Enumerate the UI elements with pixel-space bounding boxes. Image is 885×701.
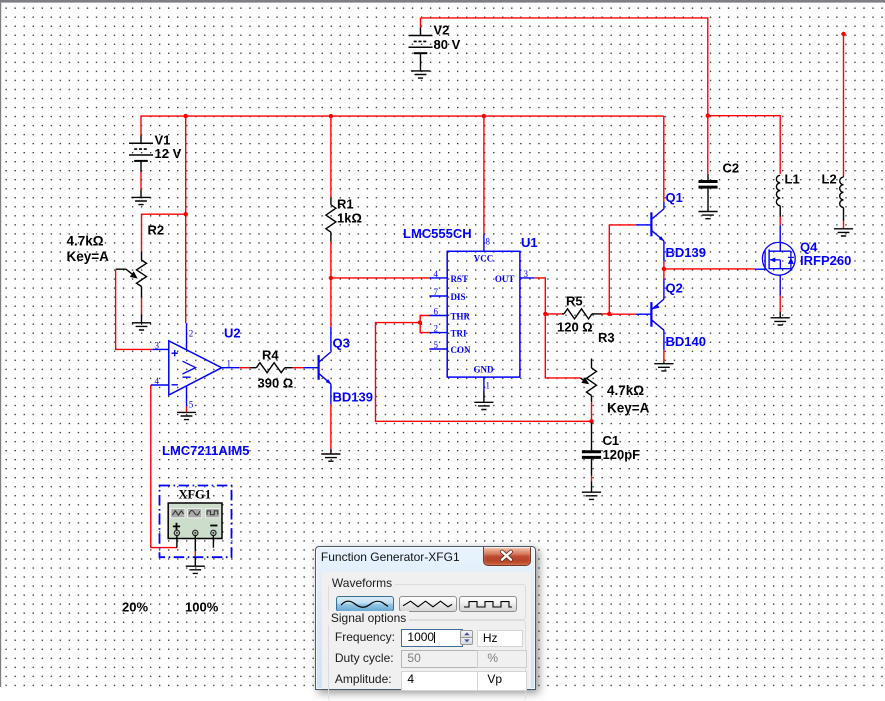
svg-text:1: 1 (227, 359, 232, 369)
svg-text:4.7kΩ: 4.7kΩ (67, 234, 104, 249)
dialog title (321, 550, 460, 564)
svg-text:100%: 100% (185, 600, 219, 615)
wire R2 wiper to U2 pin3 (116, 270, 153, 350)
wire R1 top (330, 116, 332, 198)
svg-text:L1: L1 (785, 172, 800, 187)
resistor R5 (562, 309, 602, 319)
group label Waveforms (329, 576, 395, 590)
input duty 50 (disabled) (401, 650, 480, 668)
wire R1 bottom to RST node (330, 242, 332, 278)
wire U2 output (239, 367, 250, 369)
svg-text:7: 7 (434, 287, 439, 297)
wire R2 bottom to ground (141, 298, 143, 315)
input frequency 1000 (401, 629, 462, 646)
wire C1 lower segment (591, 476, 593, 482)
svg-text:U1: U1 (521, 235, 538, 250)
wire bus to L1 (708, 116, 780, 174)
svg-text:Q3: Q3 (333, 336, 350, 351)
function generator XFG1 symbol (160, 486, 232, 567)
svg-text:BD139: BD139 (666, 245, 706, 260)
spinner up/down (460, 630, 474, 645)
wire U2 pin5 red segment (186, 407, 188, 413)
wire R5 right lead (602, 313, 610, 315)
svg-text:DIS: DIS (451, 292, 466, 302)
wire R4 to Q3 base (292, 367, 303, 369)
svg-text:120 Ω: 120 Ω (557, 320, 593, 335)
svg-text:12 V: 12 V (155, 146, 182, 161)
svg-text:V2: V2 (434, 23, 450, 38)
ground below L2 (834, 229, 853, 236)
inductor L1 (776, 175, 780, 217)
node bus/R1 (329, 114, 333, 118)
node THR-TRI feedback (418, 320, 422, 324)
wire Q2 base (609, 313, 636, 315)
ground below U2 pin5 (177, 412, 196, 419)
wire R3 wiper feed (545, 314, 580, 378)
battery V2 (409, 27, 433, 71)
svg-text:20%: 20% (122, 600, 148, 615)
svg-text:Q1: Q1 (666, 190, 683, 205)
potentiometer R3 (581, 359, 597, 403)
svg-text:4: 4 (434, 269, 439, 279)
svg-text:R2: R2 (148, 223, 165, 238)
svg-text:RST: RST (451, 274, 469, 284)
wire V1 negative to ground (140, 172, 142, 190)
close button (483, 547, 531, 566)
node bus/U2 pin2 (184, 114, 188, 118)
node bus/U1 VCC (482, 114, 486, 118)
label Duty cycle (335, 651, 394, 665)
wire Q3 collector riser (330, 278, 332, 327)
Function Generator dialog window (315, 546, 536, 690)
svg-text:LMC555CH: LMC555CH (403, 226, 472, 241)
svg-text:GND: GND (474, 364, 495, 374)
wire XFG1 common segment (194, 551, 196, 557)
inductor L2 (840, 177, 844, 229)
svg-text:390 Ω: 390 Ω (258, 376, 294, 391)
node L2 endpoint (841, 32, 845, 36)
wire R3 bottom (591, 402, 593, 421)
wire gate of Q4 (664, 268, 755, 270)
square wave button (459, 596, 517, 613)
resistor R4 (250, 363, 293, 373)
svg-text:80 V: 80 V (434, 37, 461, 52)
wire C2 top (707, 116, 709, 175)
svg-text:XFG1: XFG1 (179, 488, 212, 502)
svg-text:OUT: OUT (495, 274, 515, 284)
svg-text:5: 5 (434, 340, 439, 350)
svg-text:3: 3 (524, 269, 529, 279)
svg-text:R4: R4 (262, 348, 279, 363)
svg-text:4.7kΩ: 4.7kΩ (607, 383, 644, 398)
svg-text:C2: C2 (723, 161, 740, 176)
input amplitude 4 (401, 671, 480, 691)
wire L2 bottom (843, 221, 845, 229)
svg-text:C1: C1 (603, 433, 620, 448)
ground below XFG1 (186, 566, 205, 573)
resistor R1 (326, 198, 336, 242)
ground below Q4 (779, 312, 781, 318)
ground below R2 (141, 314, 143, 323)
svg-text:1: 1 (486, 381, 491, 391)
svg-text:Key=A: Key=A (67, 249, 110, 264)
wire OUT to R5 (534, 278, 545, 314)
svg-text:6: 6 (434, 307, 439, 317)
svg-text:THR: THR (451, 311, 471, 321)
potentiometer R2 (116, 252, 147, 298)
wire U2 pin2 supply drop (185, 116, 187, 323)
label Frequency (335, 630, 395, 644)
wire V1 12V bus (141, 116, 664, 135)
capacitor C2 (699, 174, 718, 211)
wire Q2 collector to ground (663, 350, 665, 362)
svg-text:BD140: BD140 (666, 334, 706, 349)
ground below U1 (474, 402, 493, 409)
transistor Q2 BD140 (636, 279, 664, 350)
svg-text:Key=A: Key=A (607, 401, 650, 416)
svg-text:2: 2 (189, 329, 194, 339)
group box Waveforms (328, 584, 526, 620)
svg-text:R3: R3 (598, 330, 615, 345)
MOSFET Q4 IRFP260 (755, 225, 796, 296)
wire RST to R1 node (331, 277, 430, 279)
wire U1 GND lead (483, 391, 485, 403)
battery V1 (129, 135, 153, 197)
wire branch to R2 top (142, 214, 186, 251)
wire Q1 collector to 12V bus (663, 116, 665, 202)
svg-text:IRFP260: IRFP260 (800, 253, 851, 268)
unit box Vp (477, 671, 527, 691)
wire L2 top (843, 34, 845, 177)
svg-text:CON: CON (451, 345, 472, 355)
wire Q1 base (609, 225, 636, 314)
svg-text:1kΩ: 1kΩ (337, 211, 362, 226)
triangle wave button (399, 596, 457, 613)
svg-text:2: 2 (434, 324, 439, 334)
node 80V bus corner C2 (706, 114, 710, 118)
node R2 branch (184, 212, 188, 216)
node R1/RST/Q3 (329, 276, 333, 280)
svg-text:R1: R1 (337, 197, 354, 212)
wire L1 bottom to Q4 drain (779, 217, 781, 225)
transistor Q1 BD139 (636, 202, 664, 261)
svg-text:Q2: Q2 (666, 281, 683, 296)
unit box Hz (477, 630, 523, 646)
wire U1 VCC supply (483, 116, 485, 234)
node R3/C1/feedback (589, 419, 593, 423)
IC U1 LMC555CH (429, 234, 534, 391)
svg-text:VCC: VCC (474, 254, 494, 264)
dialog client area (322, 571, 531, 689)
svg-text:120pF: 120pF (603, 447, 641, 462)
group box Signal options (328, 620, 526, 701)
ground below V2 (411, 71, 430, 78)
ground below C2 (698, 212, 717, 219)
sine wave button (selected) (336, 596, 394, 613)
wire U2 pin4 to XFG1 plus (151, 385, 177, 548)
unit box % (disabled) (477, 650, 527, 668)
ground below C1 (582, 492, 601, 499)
label Amplitude (335, 672, 392, 686)
wire V2 positive lead (420, 18, 422, 27)
svg-text:3: 3 (155, 340, 160, 350)
wire Q1/Q2 emitter junction (663, 261, 665, 278)
capacitor C1 (582, 421, 601, 492)
node R5/Q1/Q2 bases (607, 312, 611, 316)
ground below Q3 (330, 449, 332, 454)
wire THR-TRI link (420, 316, 429, 333)
node OUT/R5/R3 wiper (543, 312, 547, 316)
transistor Q3 BD139 (303, 327, 331, 404)
wire Q4 source to ground (779, 296, 781, 312)
node emitters/Q4 gate (662, 267, 666, 271)
svg-text:TRI: TRI (451, 328, 468, 338)
svg-text:5: 5 (189, 400, 194, 410)
group label Signal options (328, 611, 409, 625)
svg-text:LMC7211AIM5: LMC7211AIM5 (162, 443, 249, 458)
svg-text:L2: L2 (822, 172, 837, 187)
svg-text:BD139: BD139 (333, 390, 373, 405)
op-amp U2 LMC7211AIM5 (151, 323, 240, 406)
wire R5 left lead (545, 313, 562, 315)
wire V2 80V bus to C2/L1 corner (421, 18, 708, 116)
svg-text:U2: U2 (224, 326, 241, 341)
wire Q3 emitter to ground (330, 404, 332, 449)
ground below Q2 (663, 362, 665, 364)
svg-text:R5: R5 (566, 294, 583, 309)
ground below V1 (131, 197, 150, 204)
svg-text:4: 4 (155, 376, 160, 386)
svg-text:8: 8 (486, 237, 491, 247)
wire feedback THR/TRI to C1 node (376, 323, 592, 422)
